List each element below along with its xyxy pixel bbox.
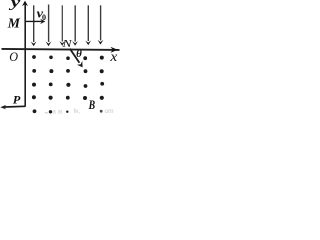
y-axis (24, 3, 26, 107)
svg-text:a ai: a ai (53, 110, 63, 114)
B field dots (32, 55, 104, 113)
y-axis arrowhead (22, 1, 28, 7)
v0 arrow (25, 20, 42, 22)
field line E3 (61, 5, 63, 41)
field line E2 (48, 5, 50, 43)
dot row 1 (32, 55, 36, 59)
faint cropped caption marks (45, 108, 114, 115)
field arrowhead E2 (46, 42, 52, 47)
dot row 3 (32, 83, 36, 87)
svg-text:O: O (9, 49, 18, 64)
dot row 4 (32, 95, 36, 99)
svg-text:N: N (61, 39, 74, 50)
x-axis arrowhead (110, 47, 117, 53)
P exit arrow (5, 105, 26, 108)
svg-text:y: y (8, 0, 21, 11)
svg-text:fe,: fe, (74, 109, 81, 114)
x-axis (2, 49, 120, 50)
field arrowhead E4 (72, 41, 78, 46)
dot row 5 (33, 109, 37, 113)
field line E1 (33, 5, 35, 42)
svg-text:B: B (88, 99, 96, 112)
svg-text:M: M (7, 17, 21, 32)
velocity arrow at N (70, 49, 80, 63)
svg-text:x: x (109, 49, 117, 64)
svg-text:0: 0 (42, 13, 46, 22)
dot row 2 (32, 69, 36, 73)
svg-text:θ: θ (76, 48, 82, 60)
svg-text:P: P (13, 95, 22, 107)
field arrowhead E5 (85, 41, 91, 46)
field arrowhead E6 (98, 40, 104, 45)
field line E5 (87, 5, 89, 41)
field line E6 (100, 5, 102, 40)
field arrowhead E1 (31, 42, 37, 47)
faint dot near bottom right (100, 110, 103, 113)
svg-text:om: om (105, 108, 114, 114)
field arrowhead E3 (59, 41, 65, 46)
field line E4 (74, 5, 76, 41)
